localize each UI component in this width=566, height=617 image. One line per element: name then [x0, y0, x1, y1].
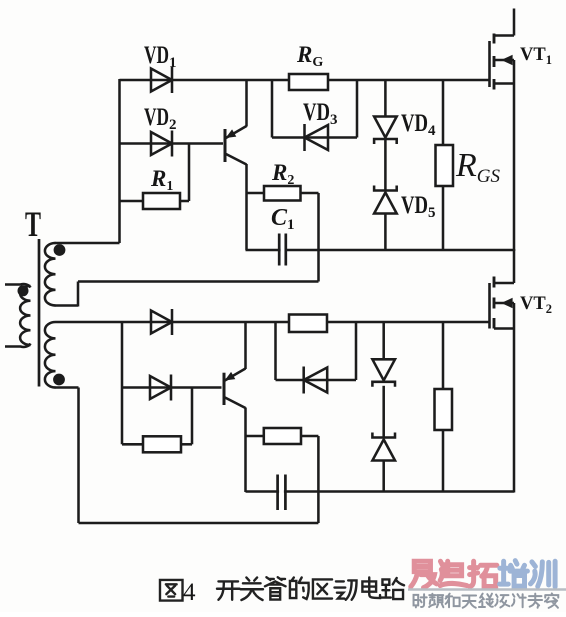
diode VD8 (lower VD3) [304, 367, 328, 394]
wire: VD7 branch [122, 386, 222, 389]
wire: S2 bottom drop [77, 388, 80, 524]
svg-text:T: T [25, 204, 41, 244]
wire: Q2 collector to bottom line [244, 322, 247, 369]
label R2 [271, 160, 294, 188]
resistor RGS2 (lower RGS) [435, 389, 453, 430]
wire: top gate drive line (bus to VT1 gate) [120, 79, 490, 82]
label RG [296, 42, 323, 70]
wire: bottom source rail [246, 490, 515, 493]
wire: R1 right lead up to VD2 output [180, 144, 189, 202]
wire: VD8 branch horizontal [276, 379, 357, 382]
diode VD3 [305, 124, 329, 151]
label VD3 [303, 99, 338, 128]
resistor R4 (lower R2) [264, 428, 301, 444]
label VT1 [520, 45, 552, 67]
wire: VT2 source vertical [513, 303, 516, 493]
wire: R4 left lead [246, 435, 264, 438]
wire: VD3 branch horizontal [272, 136, 357, 139]
wire: bottom-left bus vertical [121, 322, 124, 444]
label T [25, 204, 41, 244]
wire: VD9-VD10 link [382, 386, 385, 438]
wire: VD9 top lead [382, 322, 385, 359]
transformer secondary winding S1 [45, 243, 120, 306]
wire: R4 right lead and drop [301, 436, 318, 523]
label VD2 [144, 104, 177, 133]
wire: R2 left lead [247, 192, 265, 195]
transformer secondary winding S2 [45, 322, 79, 388]
transistor Q1 [224, 126, 247, 165]
resistor R1 [143, 193, 180, 209]
wire: VD8 branch right vertical [355, 322, 358, 380]
resistor RGS [436, 145, 454, 186]
wire: VD10 bottom lead [382, 461, 385, 492]
wire: Q1 collector to top line [245, 80, 248, 127]
wire: VD2 branch [120, 142, 224, 145]
capacitor C2 (lower C1) [278, 474, 286, 511]
label VD1 [144, 42, 177, 71]
diode VD2 [151, 131, 172, 157]
wire: VT1 source vertical [513, 60, 516, 251]
capacitor C1 [279, 233, 286, 267]
wire: R2 right lead and drop [301, 193, 319, 282]
wire: VD3 branch right vertical [356, 80, 359, 138]
wire: top source rail [246, 249, 515, 252]
watermark: 易迪拓培训 / 射频和天线设计专家 [408, 561, 566, 608]
label VD4 [401, 110, 436, 139]
transistor Q2 [223, 369, 246, 409]
wire: R1 left lead [120, 200, 144, 203]
secondary S1 polarity dot [54, 244, 66, 256]
label R1 [150, 166, 173, 194]
wire: feedback return to winding [78, 280, 319, 283]
wire: VT2 drain lead [513, 249, 516, 283]
resistor RG2 (lower RG) [289, 315, 327, 333]
caption: 图4 开关管的驱动电路 [160, 577, 404, 606]
wire: bottom gate drive line (winding to VT2 gate) [56, 321, 490, 324]
resistor R2 [264, 186, 301, 201]
label RGS [455, 147, 501, 187]
diode VD1 [151, 67, 172, 93]
zener diode VD4 [374, 117, 397, 145]
wire: VT1 drain lead [513, 9, 516, 36]
transformer primary winding [5, 284, 31, 347]
primary polarity dot [18, 285, 29, 296]
wire: VD5 bottom lead [384, 214, 387, 251]
zener diode VD5 [374, 186, 397, 214]
zener diode VD9 (lower VD4) [372, 359, 395, 387]
label VT2 [520, 294, 552, 316]
diode VD7 (lower VD2) [150, 375, 171, 401]
wire: VD4-VD5 link [384, 140, 387, 191]
svg-text:4: 4 [183, 579, 196, 606]
secondary S2 polarity dot [53, 374, 65, 386]
wire: VD3 branch left vertical [271, 80, 274, 138]
zener diode VD10 (lower VD5) [372, 433, 395, 461]
label VD5 [401, 192, 436, 221]
resistor RG [289, 74, 328, 90]
mosfet VT1 [490, 34, 515, 90]
wire: Q1 emitter vertical [245, 164, 248, 250]
wire: RGS bottom lead [442, 185, 445, 250]
wire: winding tap riser [77, 282, 80, 307]
diode VD6 (lower VD1) [151, 309, 172, 335]
wire: top-left bus vertical [118, 79, 121, 243]
wire: RGS2 bottom lead [442, 430, 445, 492]
wire: VD4 top lead [384, 80, 387, 117]
wire: bottom return line [79, 522, 319, 525]
transformer T core [38, 239, 41, 387]
wire: VD8 branch left vertical [274, 322, 277, 380]
wire: R3 right lead up [181, 388, 192, 445]
wire: Q2 emitter vertical [244, 408, 247, 493]
label C1 [271, 205, 295, 233]
resistor R3 (lower R1) [143, 436, 181, 452]
wire: RGS2 top lead [442, 322, 445, 389]
mosfet VT2 [490, 277, 515, 329]
wire: RGS top lead [442, 80, 445, 145]
wire: R3 left lead [122, 443, 143, 446]
